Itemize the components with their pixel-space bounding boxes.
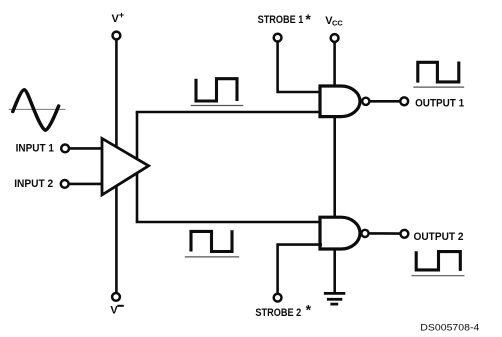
wire VCC to gate G1 [333,43,336,87]
wire G1 output [369,100,399,103]
svg-text:STROBE 2: STROBE 2 [255,307,301,319]
waveform underline [191,105,244,107]
terminal INPUT 1 [61,145,69,153]
wire G2 to ground [333,248,336,293]
wire G1 to G2 supply [333,116,336,218]
svg-text:OUTPUT 2: OUTPUT 2 [414,231,464,243]
terminal INPUT 2 [61,180,69,188]
terminal OUTPUT 1 [400,97,408,105]
waveform square wave (comparator bottom output) [191,230,232,251]
svg-text:OUTPUT 1: OUTPUT 1 [415,98,464,110]
svg-text:V: V [110,305,118,317]
svg-text:DS005708-4: DS005708-4 [420,323,479,334]
waveform square wave (comparator top output) [196,79,237,101]
svg-text:CC: CC [332,19,343,28]
op-amp comparator A1 [102,138,149,195]
sine wave input signal [13,90,59,130]
NAND gate G2 [320,217,360,249]
svg-text:STROBE 1: STROBE 1 [258,14,304,26]
wire comparator output vertical [136,112,139,222]
wire bottom run to gate G2 [136,221,322,224]
waveform underline [411,275,464,277]
waveform square wave (output 2) [416,251,460,271]
wire INPUT1 to comparator [70,147,104,150]
svg-text:*: * [305,11,311,27]
terminal STROBE 1 [274,34,282,42]
terminal OUTPUT 2 [401,230,409,238]
terminal V- [112,293,120,301]
wire G2 output [369,232,400,235]
svg-text:INPUT 2: INPUT 2 [14,178,53,190]
ground [324,293,345,304]
waveform underline [413,86,464,88]
svg-text:INPUT 1: INPUT 1 [16,142,54,154]
NAND gate G1 [320,86,360,117]
wire V+ to V- supply line [115,40,118,292]
terminal VCC [331,34,339,42]
terminal V+ [113,32,121,40]
svg-text:*: * [306,301,312,317]
terminal STROBE 2 [274,294,282,302]
wire STROBE2 to gate G2 [278,245,322,293]
inverter bubble G2 [361,230,368,237]
waveform underline [185,256,239,258]
waveform square wave (output 1) [418,62,459,83]
wire INPUT2 to comparator [69,183,104,186]
inverter bubble G1 [362,98,369,105]
wire top run to gate G1 [136,111,322,114]
wire STROBE1 to gate G1 [278,42,322,92]
sine wave axis line [9,108,66,110]
